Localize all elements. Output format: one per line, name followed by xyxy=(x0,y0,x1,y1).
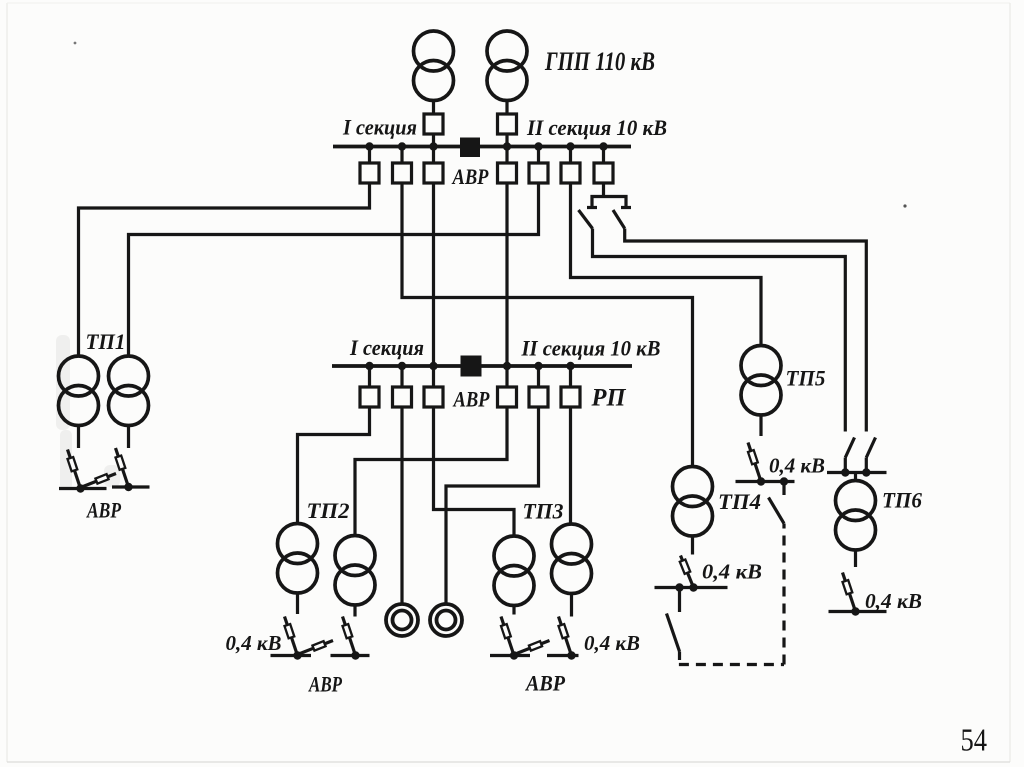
fuse-switch TP6 xyxy=(843,573,856,612)
wire TP3 left to switch xyxy=(512,606,515,615)
node TP2 right 0.4kV xyxy=(351,651,359,659)
node TP6 right xyxy=(862,468,870,476)
busbar TP3 0.4kV right xyxy=(547,654,579,657)
dashed reserve tie TP4 to TP5 (vertical) xyxy=(782,524,785,665)
busbar TP6 0.4kV xyxy=(829,610,887,613)
switch TP5 lower (to reserve tie) xyxy=(769,498,785,524)
svg-text:ТП2: ТП2 xyxy=(307,498,350,523)
transformer GPP T1 xyxy=(414,31,454,101)
node bus1 f3 xyxy=(429,142,437,150)
wire TP1 right to switch xyxy=(127,426,130,449)
bus tie AVR (filled square, bus 1) xyxy=(460,138,480,158)
wire feeder5 to TP1 right xyxy=(129,184,539,357)
breaker Q2 (GPP T2 input) xyxy=(498,114,517,134)
fuse-switch TP1 left xyxy=(68,450,81,489)
breaker QR2 (bus2 feeder 2) xyxy=(400,366,403,387)
breaker QF6 (bus1 feeder 6) xyxy=(569,147,572,164)
tie fuse-switch TP3 (AVR) xyxy=(514,641,550,655)
transformer TP4 xyxy=(673,467,713,537)
jumper bar xyxy=(592,197,626,208)
node bus1 f7 xyxy=(599,142,607,150)
breaker QF7 (bus1 feeder 7) xyxy=(602,147,605,164)
svg-text:ТП3: ТП3 xyxy=(523,499,564,524)
wire TP1 left to switch xyxy=(77,426,80,449)
svg-text:0,4 кВ: 0,4 кВ xyxy=(865,589,922,613)
scan speck top left xyxy=(74,42,77,45)
wire TP4 to switch xyxy=(691,536,694,555)
wire jumper left to TP6 left cable xyxy=(593,229,846,432)
breaker QR5 (bus2 feeder 5) xyxy=(537,366,540,387)
node TP4 0.4kV outgoing xyxy=(675,583,683,591)
svg-text:АВР: АВР xyxy=(85,498,121,523)
switch TP6 right incoming xyxy=(866,438,875,458)
node bus1 f4 xyxy=(503,142,511,150)
node bus2 f4 xyxy=(503,362,511,370)
busbar TP3 0.4kV left xyxy=(490,654,530,657)
node TP1 right 0.4kV xyxy=(124,483,132,491)
node TP2 left 0.4kV xyxy=(293,651,301,659)
svg-text:ТП5: ТП5 xyxy=(786,366,826,391)
svg-text:0,4 кВ: 0,4 кВ xyxy=(769,454,825,478)
svg-text:ГПП 110 кВ: ГПП 110 кВ xyxy=(544,46,655,76)
wire Q2 to bus 1 xyxy=(505,134,508,147)
breaker QF4 (bus1 feeder 4) xyxy=(505,147,508,164)
tie fuse-switch TP2 (AVR) xyxy=(298,641,334,655)
jumper right contact tick xyxy=(621,206,631,209)
fuse-switch TP1 right xyxy=(116,448,129,487)
wire TP6 left switch to bus xyxy=(844,458,847,473)
busbar TP2 0.4kV left xyxy=(271,654,312,657)
fuse-switch TP3 left xyxy=(501,617,514,656)
node TP3 right 0.4kV xyxy=(567,651,575,659)
svg-text:АВР: АВР xyxy=(307,672,342,697)
fuse-switch TP5 xyxy=(748,443,761,482)
wire TP4 switch to dashed tie xyxy=(678,652,681,661)
breaker QR1 (bus2 feeder 1) xyxy=(368,366,371,387)
transformer TP3 right xyxy=(552,524,592,594)
node bus1 f1 xyxy=(365,142,373,150)
node TP4 0.4kV incoming xyxy=(689,583,697,591)
wire T2 to breaker xyxy=(505,101,508,115)
wire bus2 f1 to TP2 left xyxy=(298,407,370,524)
node TP5 0.4kV incoming xyxy=(757,477,765,485)
svg-text:0,4 кВ: 0,4 кВ xyxy=(226,631,282,655)
wire feeder2 to TP4 xyxy=(402,184,693,467)
wire feeder7 to jumper xyxy=(602,184,605,197)
fuse-switch TP2 right xyxy=(343,617,356,656)
node TP6 0.4kV xyxy=(851,607,859,615)
bus 1 (GPP 10 kV switchboard) xyxy=(333,145,631,149)
wire TP5 to switch xyxy=(759,415,762,436)
transformer TP2 left xyxy=(278,524,318,594)
svg-text:АВР: АВР xyxy=(452,387,490,412)
jumper right disconnector blade xyxy=(613,210,625,229)
breaker QR6 (bus2 feeder 6) xyxy=(569,366,572,387)
busbar TP1 0.4kV right xyxy=(112,485,150,488)
svg-text:I секция: I секция xyxy=(349,335,424,360)
bus tie AVR (filled square, bus 2) xyxy=(461,356,482,377)
svg-text:II секция 10 кВ: II секция 10 кВ xyxy=(526,115,667,140)
svg-text:0,4 кВ: 0,4 кВ xyxy=(584,631,640,655)
wire bus2 f3 to TP3 left xyxy=(434,407,515,536)
wire feeder6 to TP5 xyxy=(571,184,762,346)
wire TP6 bus to transformer xyxy=(854,473,857,482)
node bus2 f2 xyxy=(398,362,406,370)
node TP6 left xyxy=(841,468,849,476)
scan speck right xyxy=(903,204,906,207)
node bus1 f5 xyxy=(534,142,542,150)
wire TP5 bus to lower switch xyxy=(782,482,785,496)
wire feeder4 to bus2 section II xyxy=(505,184,508,367)
svg-text:54: 54 xyxy=(961,722,988,758)
wire jumper right to TP6 right cable xyxy=(625,229,867,432)
svg-text:ТП6: ТП6 xyxy=(882,488,922,513)
svg-text:ТП4: ТП4 xyxy=(718,489,761,514)
wire TP3 right to switch xyxy=(570,594,573,617)
wire bus2 f6 to TP3 right xyxy=(569,407,572,524)
breaker QF3 (bus1 feeder 3) xyxy=(432,147,435,164)
node bus2 f1 xyxy=(365,362,373,370)
node TP3 left 0.4kV xyxy=(510,651,518,659)
fuse-switch TP2 left xyxy=(285,617,298,656)
node bus2 f6 xyxy=(566,362,574,370)
wire TP4 bus to lower switch xyxy=(678,588,681,613)
node bus1 f2 xyxy=(398,142,406,150)
busbar TP4 0.4kV xyxy=(655,586,728,589)
wire bus2 f5 to reactor right xyxy=(446,407,539,604)
wire bus2 f4 to TP2 right xyxy=(355,407,507,536)
dashed reserve tie TP4 to TP5 (horizontal) xyxy=(679,663,784,666)
node bus2 f3 xyxy=(429,362,437,370)
wire TP2 right to switch xyxy=(353,605,356,617)
wire Q1 to bus 1 xyxy=(432,134,435,147)
node bus1 f6 xyxy=(566,142,574,150)
svg-text:ТП1: ТП1 xyxy=(86,329,126,354)
svg-text:АВР: АВР xyxy=(524,671,565,696)
wire TP2 left to switch xyxy=(296,593,299,614)
breaker QF1 (bus1 feeder 1) xyxy=(368,147,371,164)
transformer TP1 right xyxy=(109,356,149,426)
transformer TP2 right xyxy=(335,536,375,606)
node bus2 f5 xyxy=(534,362,542,370)
switch TP6 left incoming xyxy=(845,438,854,458)
busbar TP6 10kV xyxy=(827,471,887,474)
svg-text:0,4 кВ: 0,4 кВ xyxy=(702,560,762,584)
reactor (cable reserve) right xyxy=(430,604,462,636)
node TP1 left 0.4kV xyxy=(76,484,84,492)
breaker QF5 (bus1 feeder 5) xyxy=(537,147,540,164)
busbar TP1 0.4kV left xyxy=(59,487,107,490)
busbar TP5 0.4kV xyxy=(736,480,795,483)
switch TP4 lower (to reserve tie) xyxy=(667,614,680,652)
breaker QR3 (bus2 feeder 3) xyxy=(432,366,435,387)
breaker Q1 (GPP T1 input) xyxy=(424,114,443,134)
fuse-switch TP4 xyxy=(680,556,694,588)
svg-text:II секция 10 кВ: II секция 10 кВ xyxy=(521,336,661,361)
jumper left disconnector blade xyxy=(579,210,593,229)
node TP5 0.4kV outgoing xyxy=(780,477,788,485)
svg-text:I секция: I секция xyxy=(342,115,417,140)
svg-text:РП: РП xyxy=(591,385,627,412)
wire TP6 right switch to bus xyxy=(865,458,868,473)
busbar TP2 0.4kV right xyxy=(331,654,370,657)
transformer TP1 left xyxy=(59,356,99,426)
transformer TP3 left xyxy=(494,536,534,606)
svg-text:АВР: АВР xyxy=(451,164,489,189)
wire feeder3 to bus2 section I xyxy=(432,184,435,367)
wire bus2 f2 to reactor left xyxy=(400,407,403,604)
wire feeder1 to TP1 left xyxy=(79,184,370,357)
fuse-switch TP3 right xyxy=(559,617,572,656)
reactor (cable reserve) left xyxy=(386,604,418,636)
breaker QF2 (bus1 feeder 2) xyxy=(400,147,403,164)
transformer TP6 xyxy=(836,481,876,551)
breaker QR4 (bus2 feeder 4) xyxy=(505,366,508,387)
transformer TP5 xyxy=(741,346,781,416)
scan smudge artifact near TP1 xyxy=(56,335,120,490)
wire TP6 to lower switch xyxy=(854,550,857,567)
transformer GPP T2 xyxy=(487,31,527,101)
wire T1 to breaker xyxy=(432,101,435,115)
jumper left contact tick xyxy=(587,206,597,209)
tie fuse-switch TP1 (AVR) xyxy=(81,474,117,488)
bus 2 (RP 10 kV) xyxy=(332,364,632,368)
